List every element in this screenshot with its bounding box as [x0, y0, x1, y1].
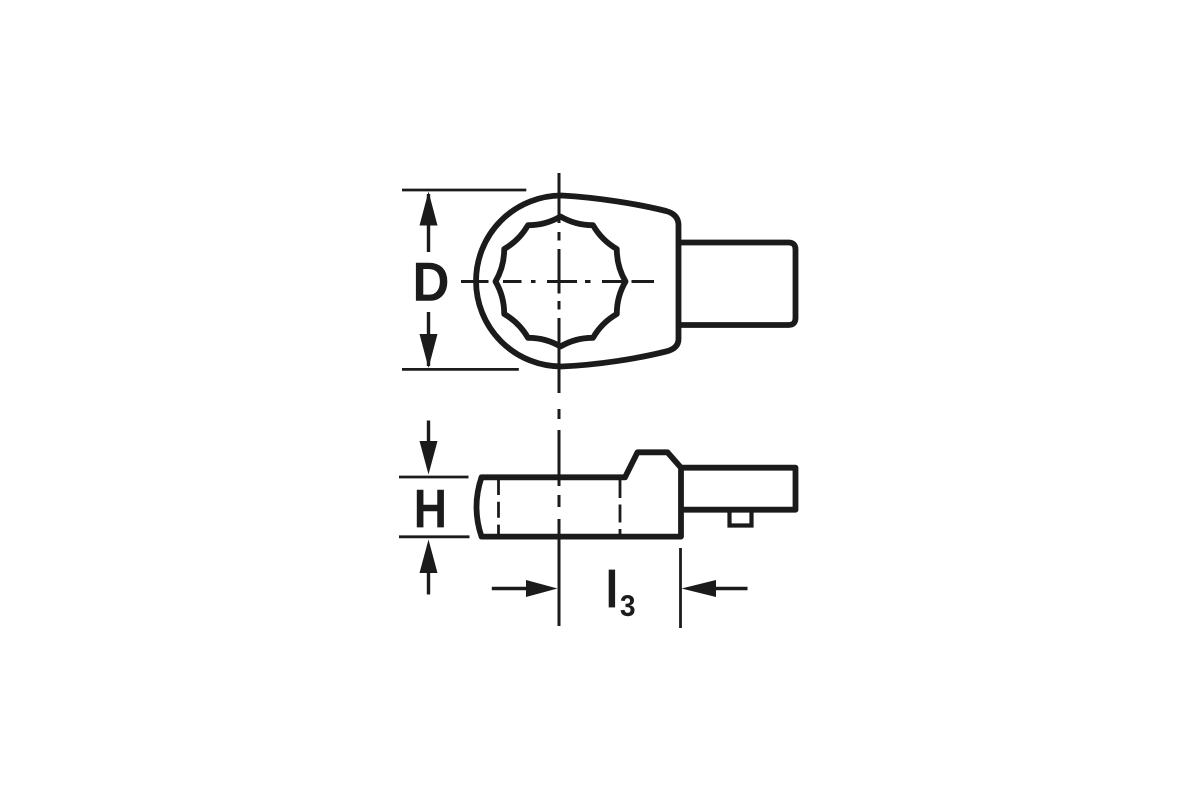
hidden line right	[619, 480, 622, 536]
vertical centerline	[558, 173, 561, 626]
ring 12-point inner profile	[496, 217, 626, 347]
dimension D arrowhead down	[420, 334, 438, 368]
dimension D arrow shaft	[427, 194, 430, 366]
hidden line left	[497, 479, 500, 536]
dimension D top extension line	[402, 189, 526, 192]
dimension D bottom extension line	[402, 368, 519, 371]
ring outer profile (top view)	[476, 196, 678, 367]
tang rectangle (top view)	[679, 243, 796, 326]
dimension l3 right arrowhead	[682, 580, 717, 597]
side view tang	[681, 468, 796, 510]
dimension H bottom arrowhead	[420, 540, 438, 574]
dimension H top arrow shaft	[427, 421, 430, 444]
label H	[417, 490, 444, 528]
label D	[416, 263, 447, 301]
dimension H top extension line	[399, 476, 469, 479]
dimension H bottom arrow shaft	[427, 571, 430, 595]
dimension l3 left arrow shaft	[492, 587, 528, 590]
dimension H bottom extension line	[399, 535, 470, 538]
dimension H top arrowhead	[420, 441, 438, 475]
side view body outline	[477, 452, 682, 536]
dimension l3 right arrow shaft	[714, 587, 748, 590]
side view pin	[730, 510, 752, 526]
dimension D arrowhead up	[420, 192, 438, 226]
dimension l3 right extension line	[679, 548, 682, 628]
label l3 bar	[609, 570, 615, 608]
dimension l3 left arrowhead	[526, 580, 558, 597]
label l3 subscript	[621, 595, 635, 616]
horizontal centerline	[461, 280, 654, 283]
